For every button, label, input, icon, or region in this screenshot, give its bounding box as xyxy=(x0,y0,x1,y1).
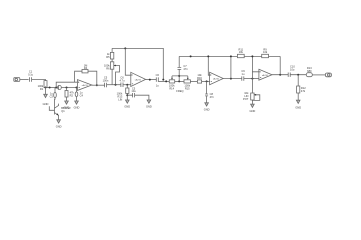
svg-text:FREQ: FREQ xyxy=(176,89,183,93)
capacitor C2 (series electrolytic) xyxy=(58,85,62,89)
svg-text:GND: GND xyxy=(124,105,130,109)
svg-text:GND: GND xyxy=(43,102,49,106)
svg-text:R14: R14 xyxy=(169,86,174,90)
capacitor C6 xyxy=(119,76,125,87)
svg-text:uA741: uA741 xyxy=(135,79,142,82)
capacitor C4 (shunt electrolytic) xyxy=(75,88,83,102)
node G xyxy=(126,84,128,86)
node H xyxy=(124,47,126,49)
wire (feedback loop U1) xyxy=(75,71,97,85)
wire (U3 output) xyxy=(223,78,242,80)
op-amp U1 xyxy=(78,80,92,91)
capacitor C7 (to ground via branch) xyxy=(127,86,149,100)
resistor R2 xyxy=(65,88,74,102)
wire (U3 inverting to rail) xyxy=(208,56,209,75)
svg-text:R15: R15 xyxy=(185,86,190,90)
wire xyxy=(92,84,105,86)
capacitor C1 xyxy=(28,70,34,82)
capacitor C11 (series) xyxy=(241,69,245,81)
node V xyxy=(297,74,299,76)
ground xyxy=(295,100,301,109)
ground xyxy=(43,94,49,106)
svg-text:uA741: uA741 xyxy=(262,74,269,77)
svg-text:47n: 47n xyxy=(210,95,215,99)
wire (to U2 inverting input) xyxy=(125,48,131,75)
ground xyxy=(124,100,130,109)
svg-text:R5: R5 xyxy=(106,55,110,59)
svg-text:10k: 10k xyxy=(263,50,268,54)
potentiometer R14 xyxy=(169,76,175,91)
resistor R7 xyxy=(117,85,129,102)
node J2 xyxy=(162,79,164,81)
ground xyxy=(56,120,62,129)
resistor R13 (series output) xyxy=(306,66,312,77)
wire xyxy=(158,80,169,82)
svg-text:C3: C3 xyxy=(50,95,54,99)
node R xyxy=(207,55,209,57)
node I xyxy=(126,94,128,96)
svg-text:R1: R1 xyxy=(40,87,44,91)
svg-text:R4: R4 xyxy=(84,66,88,70)
node D xyxy=(76,87,78,89)
capacitor C10 (shunt) xyxy=(205,81,214,102)
node U xyxy=(279,74,281,76)
svg-text:4.7u: 4.7u xyxy=(119,78,125,82)
node K xyxy=(165,80,167,82)
wire (U2 output) xyxy=(146,79,157,81)
node N xyxy=(206,80,208,82)
svg-text:GND: GND xyxy=(204,107,210,111)
connector J1 (input) xyxy=(14,78,20,82)
wire xyxy=(312,74,325,76)
resistor R5 xyxy=(106,48,114,59)
wire (feedback to rail) xyxy=(279,56,281,74)
svg-text:0.1u: 0.1u xyxy=(28,73,34,77)
potentiometer R15 xyxy=(184,76,191,91)
wire xyxy=(32,80,46,81)
svg-text:C6: C6 xyxy=(156,73,160,77)
top rail right xyxy=(179,55,280,57)
resistor R12 xyxy=(297,75,307,101)
node S xyxy=(230,55,232,57)
svg-text:Q1: Q1 xyxy=(61,109,65,113)
wire (U4 output) xyxy=(272,74,288,76)
node A xyxy=(45,87,47,89)
svg-text:GND: GND xyxy=(146,105,152,109)
svg-text:uA741: uA741 xyxy=(82,84,89,87)
node Q xyxy=(190,55,192,57)
wire xyxy=(45,88,47,95)
resistor R9 xyxy=(262,47,269,57)
wire xyxy=(190,80,197,82)
transistor Q1 xyxy=(49,98,71,120)
svg-text:GND: GND xyxy=(250,109,256,113)
svg-text:10u: 10u xyxy=(131,89,136,93)
wire xyxy=(202,80,210,82)
wire (wiper bus) xyxy=(172,76,188,82)
svg-text:47k: 47k xyxy=(301,89,306,93)
svg-text:1u: 1u xyxy=(156,83,159,87)
svg-text:10k: 10k xyxy=(239,50,244,54)
resistor R1 xyxy=(38,81,47,91)
wire xyxy=(175,80,184,82)
svg-text:R2: R2 xyxy=(70,93,74,97)
node T xyxy=(251,55,253,57)
wire (rail to U4 inverting) xyxy=(252,56,259,78)
wire xyxy=(20,79,29,81)
node M xyxy=(178,75,180,77)
op-amp U4 xyxy=(259,69,272,80)
wire xyxy=(244,78,259,80)
potentiometer R6 xyxy=(104,59,120,85)
svg-text:uA741: uA741 xyxy=(213,78,220,81)
svg-text:POT: POT xyxy=(243,97,249,101)
ground xyxy=(250,104,256,113)
ground xyxy=(64,101,70,110)
resistor R11 xyxy=(237,47,244,57)
svg-text:GND: GND xyxy=(74,106,80,110)
op-amp U2 xyxy=(131,72,146,86)
svg-text:100n: 100n xyxy=(103,78,109,82)
wire (inverting branch) xyxy=(56,82,77,87)
node F xyxy=(115,84,117,86)
capacitor C9 (tuning, to rail) xyxy=(178,56,189,76)
trimmer R10 xyxy=(243,79,260,105)
capacitor C3 (shunt electrolytic) xyxy=(50,88,57,99)
op-amp U3 xyxy=(210,72,224,85)
svg-text:R6: R6 xyxy=(106,66,110,70)
wire (output to rail) xyxy=(230,56,232,78)
wire xyxy=(123,84,131,86)
wire xyxy=(61,87,77,89)
svg-text:680: 680 xyxy=(307,69,312,73)
ground xyxy=(204,103,210,112)
svg-text:GND: GND xyxy=(295,106,301,110)
svg-text:GND: GND xyxy=(56,125,62,129)
svg-text:47n: 47n xyxy=(183,67,188,71)
node J xyxy=(149,79,151,81)
node L xyxy=(178,80,180,82)
svg-text:LIN: LIN xyxy=(118,98,122,102)
wire xyxy=(107,84,121,86)
node O xyxy=(230,78,232,80)
capacitor C5 xyxy=(103,76,109,88)
node B2 xyxy=(55,87,57,89)
node C xyxy=(66,87,68,89)
svg-text:10u: 10u xyxy=(290,67,295,71)
node P xyxy=(251,78,253,80)
svg-text:C4: C4 xyxy=(80,93,84,97)
connector J2 (output) xyxy=(325,73,331,77)
node B xyxy=(49,87,51,89)
node E xyxy=(96,84,98,86)
resistor R4 xyxy=(82,63,88,73)
capacitor C8 (series) xyxy=(156,73,160,87)
wire (main input line) xyxy=(46,87,58,89)
ground xyxy=(146,100,152,109)
ground xyxy=(74,101,80,110)
capacitor C12 (series output) xyxy=(288,64,295,77)
wire xyxy=(290,74,306,76)
resistor R16 xyxy=(197,73,202,83)
svg-text:R16: R16 xyxy=(197,76,202,80)
wire (top rail left) xyxy=(112,48,163,79)
